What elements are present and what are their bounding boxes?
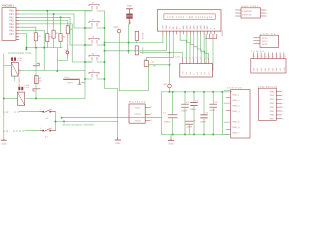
svg-text:D7: D7: [207, 72, 210, 74]
svg-text:3: 3: [151, 105, 152, 108]
wire encoder E1 bottom stub: [13, 76, 15, 81]
switch S5: [89, 72, 99, 77]
supply VCC circle: [117, 29, 121, 33]
junction dots on rails: [169, 91, 223, 135]
wire LCD pin3 drop: [169, 34, 171, 53]
header JP1 body: [180, 64, 213, 78]
wire encoder E1 right: [18, 70, 85, 72]
svg-text:PB7: PB7: [9, 33, 14, 36]
junction dots on rail: [26, 47, 59, 72]
supply VCC2 stub: [66, 54, 68, 57]
svg-text:HRST: HRST: [67, 82, 73, 85]
svg-text:HDD_6: HDD_6: [232, 126, 240, 129]
svg-text:100nF: 100nF: [186, 126, 193, 129]
wire SW-DOWN: [25, 130, 40, 132]
junction dots on buzzer bus: [128, 42, 130, 52]
wire SW-UP: [19, 111, 40, 113]
resistor R4: [59, 34, 62, 42]
svg-text:HDD_7: HDD_7: [232, 131, 240, 134]
connector SV4 red pin stubs: [226, 98, 231, 130]
svg-text:100nF: 100nF: [209, 109, 216, 112]
svg-text:7: 7: [277, 55, 278, 58]
buzzer SP1 body: [126, 14, 132, 19]
capacitor C3: [191, 103, 198, 106]
svg-text:D5: D5: [200, 72, 203, 74]
svg-text:3: 3: [266, 15, 267, 18]
ground GND2 (cap bank): [170, 135, 172, 139]
switch HRST bar: [64, 78, 79, 80]
svg-text:HDD_1: HDD_1: [232, 94, 240, 97]
wire drop to R4: [60, 17, 62, 33]
svg-text:PA5: PA5: [271, 68, 274, 71]
wire switch left bus: [85, 11, 118, 138]
svg-text:2: 2: [258, 55, 259, 58]
svg-text:4: 4: [283, 102, 284, 105]
wire drop to R5: [67, 21, 69, 26]
connector SV2 pins left: [254, 38, 261, 44]
svg-text:1: 1: [254, 55, 255, 58]
regulator IC2 pin numbers: [151, 105, 152, 121]
resistor R8: [34, 76, 38, 84]
header JP1 pin stubs (top): [183, 59, 209, 64]
capacitor C5 column: [212, 92, 214, 135]
svg-text:2: 2: [51, 108, 52, 111]
wire encoder E2 left: [4, 98, 18, 100]
junction dot ground row: [61, 117, 63, 119]
svg-text:9: 9: [285, 55, 286, 58]
junction dots on switch buses: [84, 27, 105, 80]
connector SV3 body: [251, 59, 286, 74]
svg-text:PC14: PC14: [262, 40, 268, 43]
ground bar (top middle, inverted): [127, 8, 133, 10]
svg-text:10-XX: 10-XX: [64, 76, 70, 79]
junction dots encoder: [3, 98, 37, 100]
connector SV4 body: [231, 90, 251, 138]
wire net PB6 row: [19, 30, 44, 32]
wire LCD pins to header staircase: [180, 34, 186, 59]
svg-text:VOUT: VOUT: [134, 106, 141, 109]
svg-text:2: 2: [283, 94, 284, 97]
svg-text:R8: R8: [39, 77, 41, 80]
svg-text:PA0: PA0: [252, 68, 255, 71]
svg-text:CON-PA: CON-PA: [251, 50, 265, 53]
svg-text:RW: RW: [189, 71, 192, 74]
wire left rail column: [160, 92, 162, 135]
wire pull rail below resistors: [26, 34, 67, 99]
resistor R7: [144, 61, 148, 67]
connector SV5 pin names: [270, 90, 275, 120]
wire net PB1 row: [19, 13, 74, 15]
svg-text:SW--UP: SW--UP: [3, 111, 19, 114]
wire long ground row: [62, 117, 162, 119]
svg-text:2: 2: [266, 12, 267, 15]
svg-text:ENCODER CH1: ENCODER CH1: [9, 51, 32, 55]
svg-text:3: 3: [283, 98, 284, 101]
wire buzzer down bus: [128, 24, 130, 54]
capacitor C4 column: [184, 92, 186, 135]
regulator IC2 body: [129, 104, 145, 123]
wire rail drop C: [56, 48, 58, 71]
svg-text:GND: GND: [168, 143, 173, 146]
wire drop to R1: [35, 27, 37, 33]
wire LCD pin1 drop: [146, 34, 208, 61]
svg-text:2 PH1: 2 PH1: [24, 86, 29, 89]
wire switch right bus: [105, 11, 118, 137]
svg-text:6: 6: [273, 55, 274, 58]
encoder E2 box diagonal: [18, 92, 25, 105]
encoder E1 contact symbol: [11, 57, 16, 60]
LCD1 inner display: [164, 14, 215, 20]
svg-text:LCD1: LCD1: [221, 30, 224, 36]
svg-text:PD0/RXD: PD0/RXD: [242, 10, 252, 13]
resistor R5: [66, 26, 69, 34]
svg-text:1: 1: [283, 90, 284, 93]
capacitor C2: [201, 115, 208, 118]
svg-text:+5V: +5V: [162, 83, 167, 86]
svg-text:5: 5: [269, 55, 270, 58]
svg-text:HDD_5: HDD_5: [232, 121, 240, 124]
wire 222 column: [221, 92, 223, 135]
wire encoder E2 right: [25, 98, 85, 100]
svg-text:VCCB: VCCB: [134, 120, 141, 123]
svg-text:10k: 10k: [39, 80, 42, 83]
capacitor C1: [168, 115, 177, 118]
wire +5V column: [169, 53, 171, 85]
connector SV3 pin names (rotated): [252, 67, 285, 72]
regulator IC2 pin stubs: [145, 107, 150, 120]
wire R7 down to VCC trunk: [119, 66, 148, 90]
wire PB7 drop: [25, 34, 27, 50]
resistor R1: [34, 33, 37, 41]
svg-text:VDD: VDD: [165, 24, 168, 29]
svg-text:100nF: 100nF: [190, 108, 197, 111]
wire bottom ground rail: [161, 134, 229, 136]
svg-text:PA4: PA4: [268, 68, 271, 71]
svg-text:GND: GND: [127, 4, 133, 7]
LCD pins 14-16 drops: [206, 34, 217, 38]
connector SV5 pins right: [276, 92, 281, 119]
connector SV1 pins left: [236, 10, 242, 16]
svg-text:GND: GND: [1, 142, 6, 145]
svg-text:1: 1: [40, 108, 41, 111]
svg-text:2: 2: [51, 127, 52, 130]
svg-text:LCD 16X2 LED backlight: LCD 16X2 LED backlight: [167, 16, 212, 19]
junction dot R7/+5V: [169, 64, 171, 66]
svg-text:D4: D4: [196, 72, 199, 74]
connector SV2 body: [260, 35, 279, 47]
svg-text:7: 7: [283, 113, 284, 116]
wire left bus: [3, 54, 5, 139]
wire mid row A: [105, 42, 163, 44]
svg-text:HDD_4: HDD_4: [232, 110, 240, 113]
encoder E2 contact symbol: [18, 87, 23, 90]
wire net PB5 row: [19, 26, 36, 28]
svg-text:5: 5: [283, 106, 284, 109]
net flag top (column 36): [33, 63, 39, 66]
svg-text:VCC: VCC: [65, 49, 70, 52]
switch S2: [89, 21, 99, 26]
wire mid row C (+5V net to header pin1): [140, 53, 183, 59]
switch S7 (SW-DOWN): [40, 129, 55, 132]
svg-text:1: 1: [151, 118, 152, 121]
capacitor C2 column: [203, 92, 205, 135]
connector SV4 green pin wires: [224, 90, 231, 134]
svg-text:HDD_3: HDD_3: [232, 104, 240, 107]
wire HRST to bus: [81, 82, 85, 84]
connector SV5 body: [258, 88, 276, 120]
svg-text:Stiksene styregami - GROUND: Stiksene styregami - GROUND: [62, 123, 94, 126]
capacitor C6 stub: [188, 124, 190, 134]
wire LCD pin2 drop: [165, 34, 167, 51]
wire VCC2 lead: [58, 56, 67, 60]
svg-text:LCD: LCD: [176, 56, 181, 59]
switch S1: [89, 4, 99, 9]
resistor R5: [135, 31, 138, 40]
svg-text:100nF: 100nF: [200, 120, 207, 123]
wire net PB7 row: [19, 33, 27, 35]
IC U1 pin stubs: [16, 11, 19, 40]
svg-text:PA2: PA2: [260, 68, 263, 71]
wire mid row B: [105, 50, 167, 52]
regulator IC2 pin names: [134, 106, 141, 122]
switch S4: [89, 55, 99, 60]
svg-text:VSS: VSS: [162, 25, 165, 30]
capacitor C6: [186, 121, 193, 124]
capacitor C3 column: [193, 92, 195, 135]
junction dot +5V column: [169, 52, 171, 54]
svg-text:100nF: 100nF: [181, 110, 188, 113]
svg-text:6: 6: [283, 110, 284, 113]
wire SW common row: [55, 121, 117, 123]
switch HRST lever: [78, 79, 81, 84]
wire PB6 drop: [43, 31, 45, 48]
svg-text:CON-HDD: CON-HDD: [227, 87, 242, 90]
svg-text:UART-CON1: UART-CON1: [241, 5, 259, 8]
svg-text:PC15: PC15: [262, 43, 268, 46]
svg-text:2: 2: [151, 112, 152, 115]
svg-text:SW--DOWN: SW--DOWN: [3, 130, 24, 133]
resistor R2: [46, 34, 49, 42]
svg-text:PD1/TXD: PD1/TXD: [242, 13, 252, 16]
LCD1 pin stubs: [163, 31, 214, 34]
wire drop to R3: [53, 14, 55, 30]
LCD1 pin names (rotated): [162, 24, 217, 29]
wire net PB0 row: [19, 10, 92, 12]
svg-text:CON-PB-OUT: CON-PB-OUT: [258, 85, 279, 88]
svg-text:RW: RW: [175, 26, 178, 29]
svg-text:ENCODER2: ENCODER2: [18, 77, 21, 88]
encoder E1 box diagonal: [11, 62, 18, 76]
capacitor C1 column: [172, 92, 174, 135]
wire LCD backlight drop A: [205, 39, 207, 64]
connector SV4 pin names: [232, 94, 240, 135]
svg-text:8: 8: [283, 118, 284, 121]
svg-text:4: 4: [266, 55, 267, 58]
wire net PB4 row: [19, 23, 72, 25]
svg-text:2 PH1: 2 PH1: [17, 59, 22, 62]
svg-text:PA6: PA6: [275, 68, 278, 71]
svg-text:ATMEGA8 IC1: ATMEGA8 IC1: [2, 5, 15, 8]
IC U1 pin labels PB0-PB7: [9, 10, 14, 36]
connector SV5 pin numbers: [283, 90, 284, 120]
LCD1 outer body: [157, 10, 221, 31]
svg-text:VCCA: VCCA: [134, 113, 141, 116]
svg-text:HDD_2: HDD_2: [232, 99, 240, 102]
svg-text:1: 1: [266, 9, 267, 12]
wire staircase to switch S4: [72, 24, 92, 62]
wire rail drop B: [43, 48, 45, 70]
switch S6 (SW-UP): [40, 110, 55, 113]
wire rail drop A: [35, 48, 37, 99]
capacitor C5: [210, 104, 217, 107]
resistor R3: [52, 30, 55, 38]
wire LCD pin4 to R7: [146, 34, 173, 61]
wire VCC stub: [118, 33, 120, 91]
svg-text:MC33269: MC33269: [129, 101, 146, 104]
svg-text:PC13: PC13: [262, 37, 268, 40]
wire drop to R2: [46, 11, 48, 34]
resistor R6: [135, 46, 138, 55]
svg-text:ENC1: ENC1: [19, 69, 22, 74]
connector SV1 body: [241, 8, 261, 18]
encoder E2 box: [18, 92, 25, 105]
wire staircase to switch S3: [70, 17, 92, 45]
svg-text:PA7: PA7: [279, 68, 282, 71]
encoder E1 box: [11, 62, 18, 76]
wire LCD backlight drop B: [212, 39, 214, 71]
svg-text:100uF: 100uF: [164, 121, 171, 124]
buzzer SP1 leads: [128, 9, 130, 24]
supply +5V circle: [168, 84, 172, 88]
wire net PB2 row: [19, 16, 70, 18]
net flag bottom (column 36): [33, 89, 40, 91]
svg-text:PA3: PA3: [264, 68, 267, 71]
connector SV3 pin numbers: [254, 55, 285, 58]
ground GND1 (switch bus): [117, 137, 119, 140]
switch S3: [89, 38, 99, 43]
svg-text:P$1: P$1: [151, 61, 154, 64]
svg-text:8: 8: [281, 55, 282, 58]
svg-text:GND: GND: [283, 67, 286, 72]
svg-text:PA1: PA1: [256, 68, 259, 71]
junction dot SW row: [55, 121, 65, 123]
connector SV3 pins top: [254, 53, 284, 59]
wire top power rail: [161, 91, 231, 93]
wire net PB3 row: [19, 20, 68, 22]
wire R7 right to +5V column: [148, 64, 169, 66]
svg-text:1: 1: [40, 127, 41, 130]
wire encoder E1 left: [4, 61, 14, 66]
header JP1 pin names (rotated): [181, 71, 210, 75]
wire staircase to switch S2: [74, 14, 92, 28]
wire R5 stub: [136, 40, 138, 42]
wire +5V stub down: [169, 88, 171, 92]
svg-text:R5 10k: R5 10k: [141, 33, 144, 39]
IC U1 body: [2, 8, 16, 41]
svg-text:GND: GND: [115, 142, 120, 145]
wire SW vertical: [54, 112, 56, 131]
svg-text:VCC: VCC: [113, 26, 118, 29]
supply VCC2 circle: [66, 51, 69, 54]
connector SV1 pins right: [261, 10, 266, 16]
capacitor C4: [182, 104, 189, 107]
ground GND3 (left bus): [3, 139, 5, 140]
svg-text:VO: VO: [168, 26, 171, 29]
header JP1 pin numbers: [181, 56, 208, 59]
svg-text:S-4: S-4: [45, 136, 48, 139]
junction dots on IC rows: [26, 10, 62, 50]
svg-text:D6: D6: [204, 72, 207, 74]
svg-text:S-3: S-3: [45, 117, 48, 120]
svg-text:3: 3: [262, 55, 263, 58]
